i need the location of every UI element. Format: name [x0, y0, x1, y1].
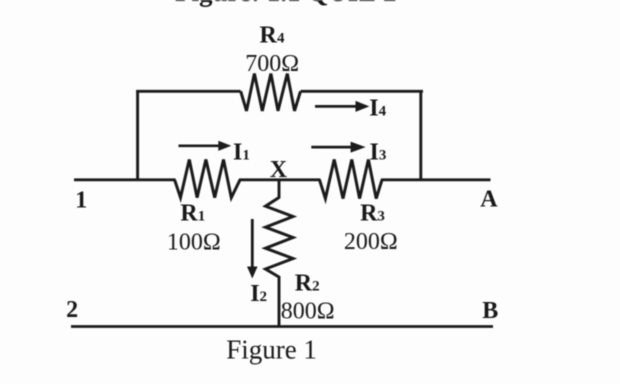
svg-text:2: 2 [66, 297, 78, 323]
svg-text:700Ω: 700Ω [245, 51, 299, 77]
svg-text:Figure 1: Figure 1 [226, 335, 317, 365]
svg-text:4: 4 [277, 31, 285, 47]
svg-text:3: 3 [379, 148, 387, 164]
svg-text:R: R [180, 200, 198, 226]
svg-text:B: B [482, 298, 498, 324]
svg-text:R: R [260, 23, 278, 49]
svg-text:Figure: 1.1 QUIZ 2: Figure: 1.1 QUIZ 2 [175, 0, 397, 7]
svg-text:R: R [360, 200, 378, 226]
svg-text:I: I [369, 96, 378, 122]
svg-text:R: R [295, 270, 313, 296]
svg-text:1: 1 [198, 208, 206, 224]
svg-text:100Ω: 100Ω [167, 230, 221, 256]
svg-text:200Ω: 200Ω [344, 229, 398, 255]
svg-text:3: 3 [377, 208, 385, 224]
svg-text:I: I [370, 140, 379, 166]
svg-text:2: 2 [312, 278, 320, 294]
svg-text:800Ω: 800Ω [281, 298, 335, 324]
svg-text:2: 2 [260, 289, 268, 305]
svg-text:4: 4 [379, 104, 387, 120]
svg-text:A: A [480, 187, 498, 213]
svg-text:1: 1 [75, 187, 87, 213]
svg-text:I: I [250, 281, 259, 307]
svg-text:I: I [233, 140, 242, 166]
svg-text:1: 1 [242, 148, 250, 164]
svg-text:X: X [270, 157, 288, 183]
